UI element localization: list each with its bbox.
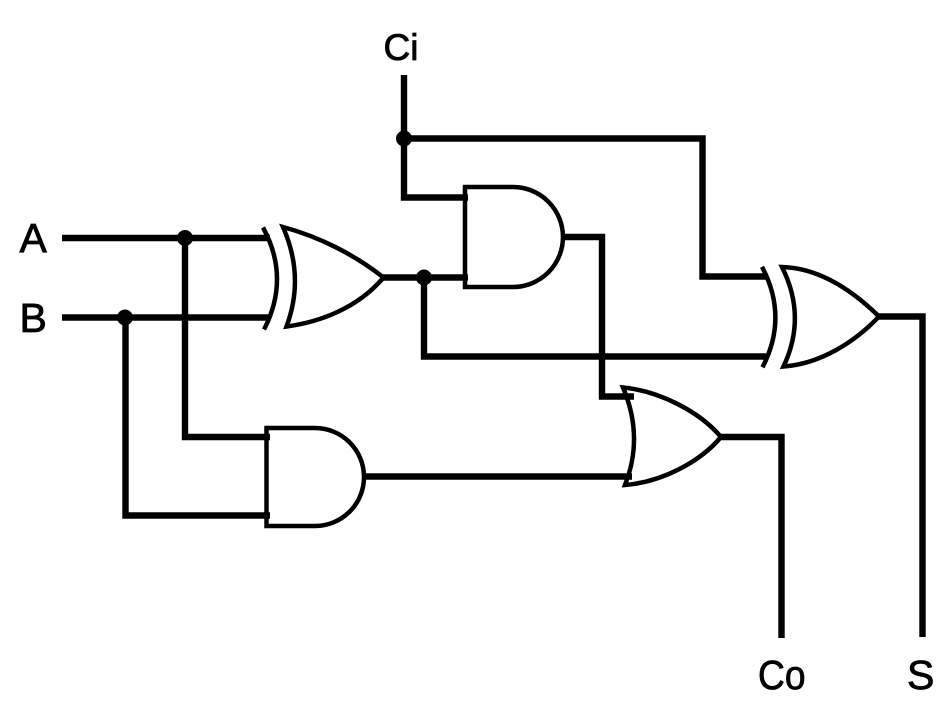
wire AND U3 output to OR U5 bottom input <box>364 473 632 479</box>
wire XOR U4 output down to S terminal <box>879 317 923 638</box>
wire AND U2 output down to OR U5 top input <box>563 237 634 397</box>
wire XOR U1 output branch down to XOR U4 bottom input <box>424 278 766 357</box>
wire Ci junction to XOR U4 top input <box>404 139 766 277</box>
wire OR U5 output down to Co terminal <box>721 437 782 638</box>
node XOR U1 output junction <box>416 270 432 286</box>
svg-text:S: S <box>907 652 934 698</box>
wire A input lead to XOR U1 top input <box>62 235 270 241</box>
svg-text:Co: Co <box>758 652 806 698</box>
svg-text:B: B <box>20 295 47 341</box>
wire B branch down to AND U3 bottom input <box>126 318 271 516</box>
xor-gate U4 (sum) input arc <box>762 267 775 368</box>
wire B input lead to XOR U1 bottom input <box>62 314 270 320</box>
xor-gate U1 (A xor B) body <box>283 227 384 327</box>
svg-text:Ci: Ci <box>384 27 419 68</box>
or-gate U5 (carry out) body <box>623 388 721 486</box>
wire A branch down to AND U3 top input <box>185 238 270 437</box>
node A junction <box>177 230 193 246</box>
and-gate U2 ((A xor B) and Ci) body <box>465 187 563 287</box>
node Ci junction <box>396 131 412 147</box>
wire Ci input lead down to AND gate U2 top input <box>404 75 468 198</box>
xor-gate U4 (sum) body <box>782 267 879 367</box>
wire XOR U1 output to AND U2 bottom input <box>383 274 468 280</box>
xor-gate U1 (A xor B) input arc <box>263 228 277 330</box>
and-gate U3 (A and B) body <box>267 428 365 526</box>
svg-text:A: A <box>20 215 48 261</box>
node B junction <box>117 310 133 326</box>
